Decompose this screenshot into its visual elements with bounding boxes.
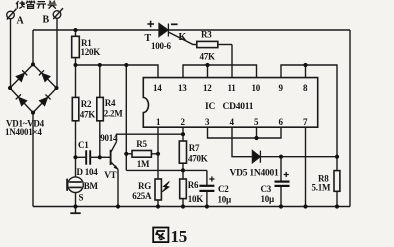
wire: C2 bottom to ground bus	[206, 191, 208, 207]
svg-text:470K: 470K	[188, 153, 208, 163]
terminal A (circle with slash)	[7, 9, 17, 20]
svg-text:14: 14	[153, 83, 162, 93]
wire: IC pin 2 stub to collector node	[182, 127, 184, 141]
wire: top supply bus from bridge + to right edge	[33, 29, 350, 31]
IC U1 CD4011 package	[143, 78, 317, 128]
wire: C3 bottom to ground bus	[280, 186, 282, 207]
resistor R7 (vertical)	[179, 141, 186, 163]
node: junction R4 on VDD sub-bus	[98, 63, 102, 67]
wire: R6 bottom to ground bus	[182, 199, 184, 207]
wire: VDD feed column down to R5-left and lower rail	[125, 65, 127, 170]
wire: pin 5 stub	[256, 127, 258, 138]
wire: R5 right lead	[151, 153, 158, 155]
svg-text:10K: 10K	[188, 194, 204, 204]
wire: pins 9-8 input bus above IC to R8 column	[281, 65, 337, 171]
wire: VD5 cathode to delay node and on to R8 column	[260, 156, 337, 158]
node: junction pin 8 on bus	[303, 63, 307, 67]
node: junction R4/C1/base	[98, 155, 102, 159]
svg-text:RG: RG	[138, 181, 151, 191]
terminal B (circle with slash)	[53, 8, 63, 19]
diode VD5 1N4001	[252, 151, 260, 163]
svg-text:VT: VT	[104, 170, 116, 180]
resistor R2 (vertical)	[75, 65, 77, 97]
svg-text:12: 12	[203, 83, 212, 93]
node: bridge left vertex junction	[8, 86, 12, 90]
svg-text:A: A	[17, 16, 25, 27]
node: junction R2/C1/mic	[73, 155, 77, 159]
microphone BM (electret)	[75, 157, 77, 177]
wire: top bus left corner down to bridge top vertex	[32, 30, 34, 64]
wire: C1 right plate to base junction	[90, 156, 100, 158]
node: junction pin 5	[254, 136, 258, 140]
label + (anode polarity)	[147, 21, 154, 28]
node: ground bus junction at R8	[335, 204, 339, 208]
wire: collector up and across to R7 top / pin 2 node	[117, 134, 184, 142]
svg-text:C2: C2	[218, 184, 229, 194]
svg-text:120K: 120K	[81, 47, 101, 57]
light arrow (bolt) at RG	[162, 182, 169, 192]
wire: lower VDD rail to C2	[126, 169, 207, 171]
node: ground bus junction at RG	[156, 204, 160, 208]
node: R1 tap on top bus	[74, 28, 78, 32]
svg-text:S: S	[79, 192, 84, 202]
diode VD1 (top-left arm)	[16, 70, 27, 81]
wire: pin 7 (VSS) straight down to ground bus	[305, 127, 307, 206]
svg-text:C1: C1	[78, 140, 89, 150]
wire: bottom ground bus	[33, 206, 350, 208]
wire: R8 bottom to ground bus	[336, 191, 338, 206]
emitter arrowhead of VT	[114, 165, 119, 169]
resistor R8 (vertical, discharge)	[334, 171, 340, 192]
node: bridge right vertex junction	[55, 86, 59, 90]
svg-text:CD4011: CD4011	[223, 102, 254, 112]
wire: R3 right to pin 11 column	[218, 44, 232, 46]
wire: VDD sub-bus (R1 bottom) across to IC pin 14	[76, 65, 159, 78]
transistor Q VT 9014	[111, 142, 118, 170]
node: junction R1/R2 on VDD sub-bus	[74, 63, 78, 67]
thyristor T 100-6 (on top bus, anode left, cathode bar right)	[159, 24, 168, 37]
svg-text:10µ: 10µ	[261, 194, 276, 204]
node: bridge top vertex junction	[31, 62, 35, 66]
svg-text:B: B	[43, 15, 50, 26]
node: delay node junction (C3 top / pin6 feed)	[279, 155, 283, 159]
caption 图15 : hand-drawn 图 plus text 15	[153, 228, 168, 243]
resistor R6 (vertical)	[180, 179, 187, 199]
svg-text:11: 11	[228, 83, 237, 93]
svg-text:D 104: D 104	[77, 167, 99, 177]
rectifier bridge VD1~VD4 diamond wires	[10, 64, 57, 112]
svg-text:47K: 47K	[200, 51, 216, 61]
wire: terminal A lead down to bridge left vertex	[10, 19, 12, 88]
node: ground bus junction at R6	[181, 204, 185, 208]
wire: base lead to VT	[100, 156, 110, 158]
svg-text:R6: R6	[188, 180, 199, 190]
node: ground bus junction at emitter	[116, 204, 120, 208]
node: ground bus junction at pin 7	[303, 204, 307, 208]
wire: pin 12 stub	[207, 65, 209, 78]
svg-text:15: 15	[171, 227, 188, 246]
wire: pin 4 column down to VD5 (crosses pin3-6 link)	[232, 127, 252, 157]
svg-text:47K: 47K	[80, 109, 96, 119]
wire: RG bottom to ground bus	[157, 200, 159, 207]
svg-text:IC: IC	[205, 102, 215, 112]
photoresistor RG 625A	[155, 179, 161, 200]
svg-text:VD5 1N4001: VD5 1N4001	[230, 169, 279, 179]
resistor R4 (vertical)	[99, 65, 101, 97]
wire: emitter down to ground bus	[117, 169, 119, 206]
capacitor C3 (electrolytic delay cap)	[280, 157, 282, 181]
capacitor C2 (electrolytic, on VDD rail)	[206, 170, 208, 185]
node: junction R7/R6/VDD rail	[181, 168, 185, 172]
wire: pin 8 stub	[305, 65, 307, 78]
svg-text:R4: R4	[105, 98, 116, 108]
node: junction pin 12 on bus	[205, 63, 209, 67]
node: R5 right junction on pin1/RG column	[156, 152, 160, 156]
node: junction at R8 column	[335, 155, 339, 159]
node: ground bus junction at mic	[73, 204, 77, 208]
label 代替开关 (hand-drawn hanzi strokes)	[16, 1, 57, 9]
wire: mic bottom to ground bus	[75, 193, 77, 207]
ground symbol below bus at mic	[70, 207, 80, 214]
wire: right edge vertical from SCR cathode bus down to bottom bus	[349, 30, 351, 207]
resistor R1 (vertical, from top bus)	[75, 30, 77, 36]
svg-text:R2: R2	[81, 99, 92, 109]
svg-text:R3: R3	[201, 30, 212, 40]
wire: gate-output bus pins 13-12-10 above IC	[183, 65, 257, 78]
diode VD4 (bottom-right arm)	[40, 95, 51, 106]
node: junction pin2/collector/R7	[181, 132, 185, 136]
svg-text:13: 13	[178, 83, 187, 93]
svg-text:1M: 1M	[137, 159, 150, 169]
resistor R3 (horizontal)	[197, 41, 218, 47]
wire: vertical from R3 down to IC pin 11 (crosses gate bus)	[231, 45, 233, 78]
node: bridge bottom vertex junction	[31, 111, 35, 115]
node: ground bus junction at C2	[205, 204, 209, 208]
label + (C3 polarity)	[284, 172, 289, 177]
svg-text:BM: BM	[84, 181, 99, 191]
svg-text:10µ: 10µ	[218, 194, 233, 204]
wire: mic junction to C1 left plate	[76, 156, 87, 158]
wire: gate diagonal lead from thyristor to R3	[169, 32, 197, 44]
resistor R5 (horizontal)	[132, 151, 151, 158]
svg-text:C3: C3	[261, 184, 272, 194]
label + (C2 polarity)	[209, 176, 214, 181]
svg-text:R5: R5	[136, 139, 147, 149]
svg-text:R7: R7	[189, 143, 200, 153]
svg-text:5.1M: 5.1M	[312, 182, 332, 192]
svg-text:1N4001×4: 1N4001×4	[5, 127, 42, 137]
diode VD3 (bottom-left arm)	[16, 94, 27, 105]
capacitor C1 (coupling, two plates)	[86, 150, 90, 164]
wire: R7 bottom to VDD rail	[182, 163, 184, 179]
wire: pin 3 down and across to pins 5,6	[208, 127, 282, 138]
diode VD2 (top-right arm)	[39, 70, 50, 81]
node: junction R5 feed on VDD sub-bus	[124, 63, 128, 67]
wire: bridge bottom vertex down to bottom bus	[32, 113, 34, 207]
label - (cathode polarity)	[171, 23, 178, 25]
svg-text:9014: 9014	[100, 133, 118, 143]
wire: terminal B lead down to bridge right vertex (crosses top bus)	[56, 18, 58, 88]
node: ground bus junction at C3	[279, 204, 283, 208]
svg-text:625A: 625A	[132, 191, 152, 201]
wire: R5 left lead	[126, 153, 132, 155]
svg-text:100-6: 100-6	[151, 41, 171, 51]
svg-text:10: 10	[252, 83, 261, 93]
node: R5 left junction on VDD feed column	[124, 152, 128, 156]
svg-text:2.2M: 2.2M	[104, 108, 124, 118]
wire: IC pin 1 column down through R5 node to RG	[157, 127, 159, 179]
